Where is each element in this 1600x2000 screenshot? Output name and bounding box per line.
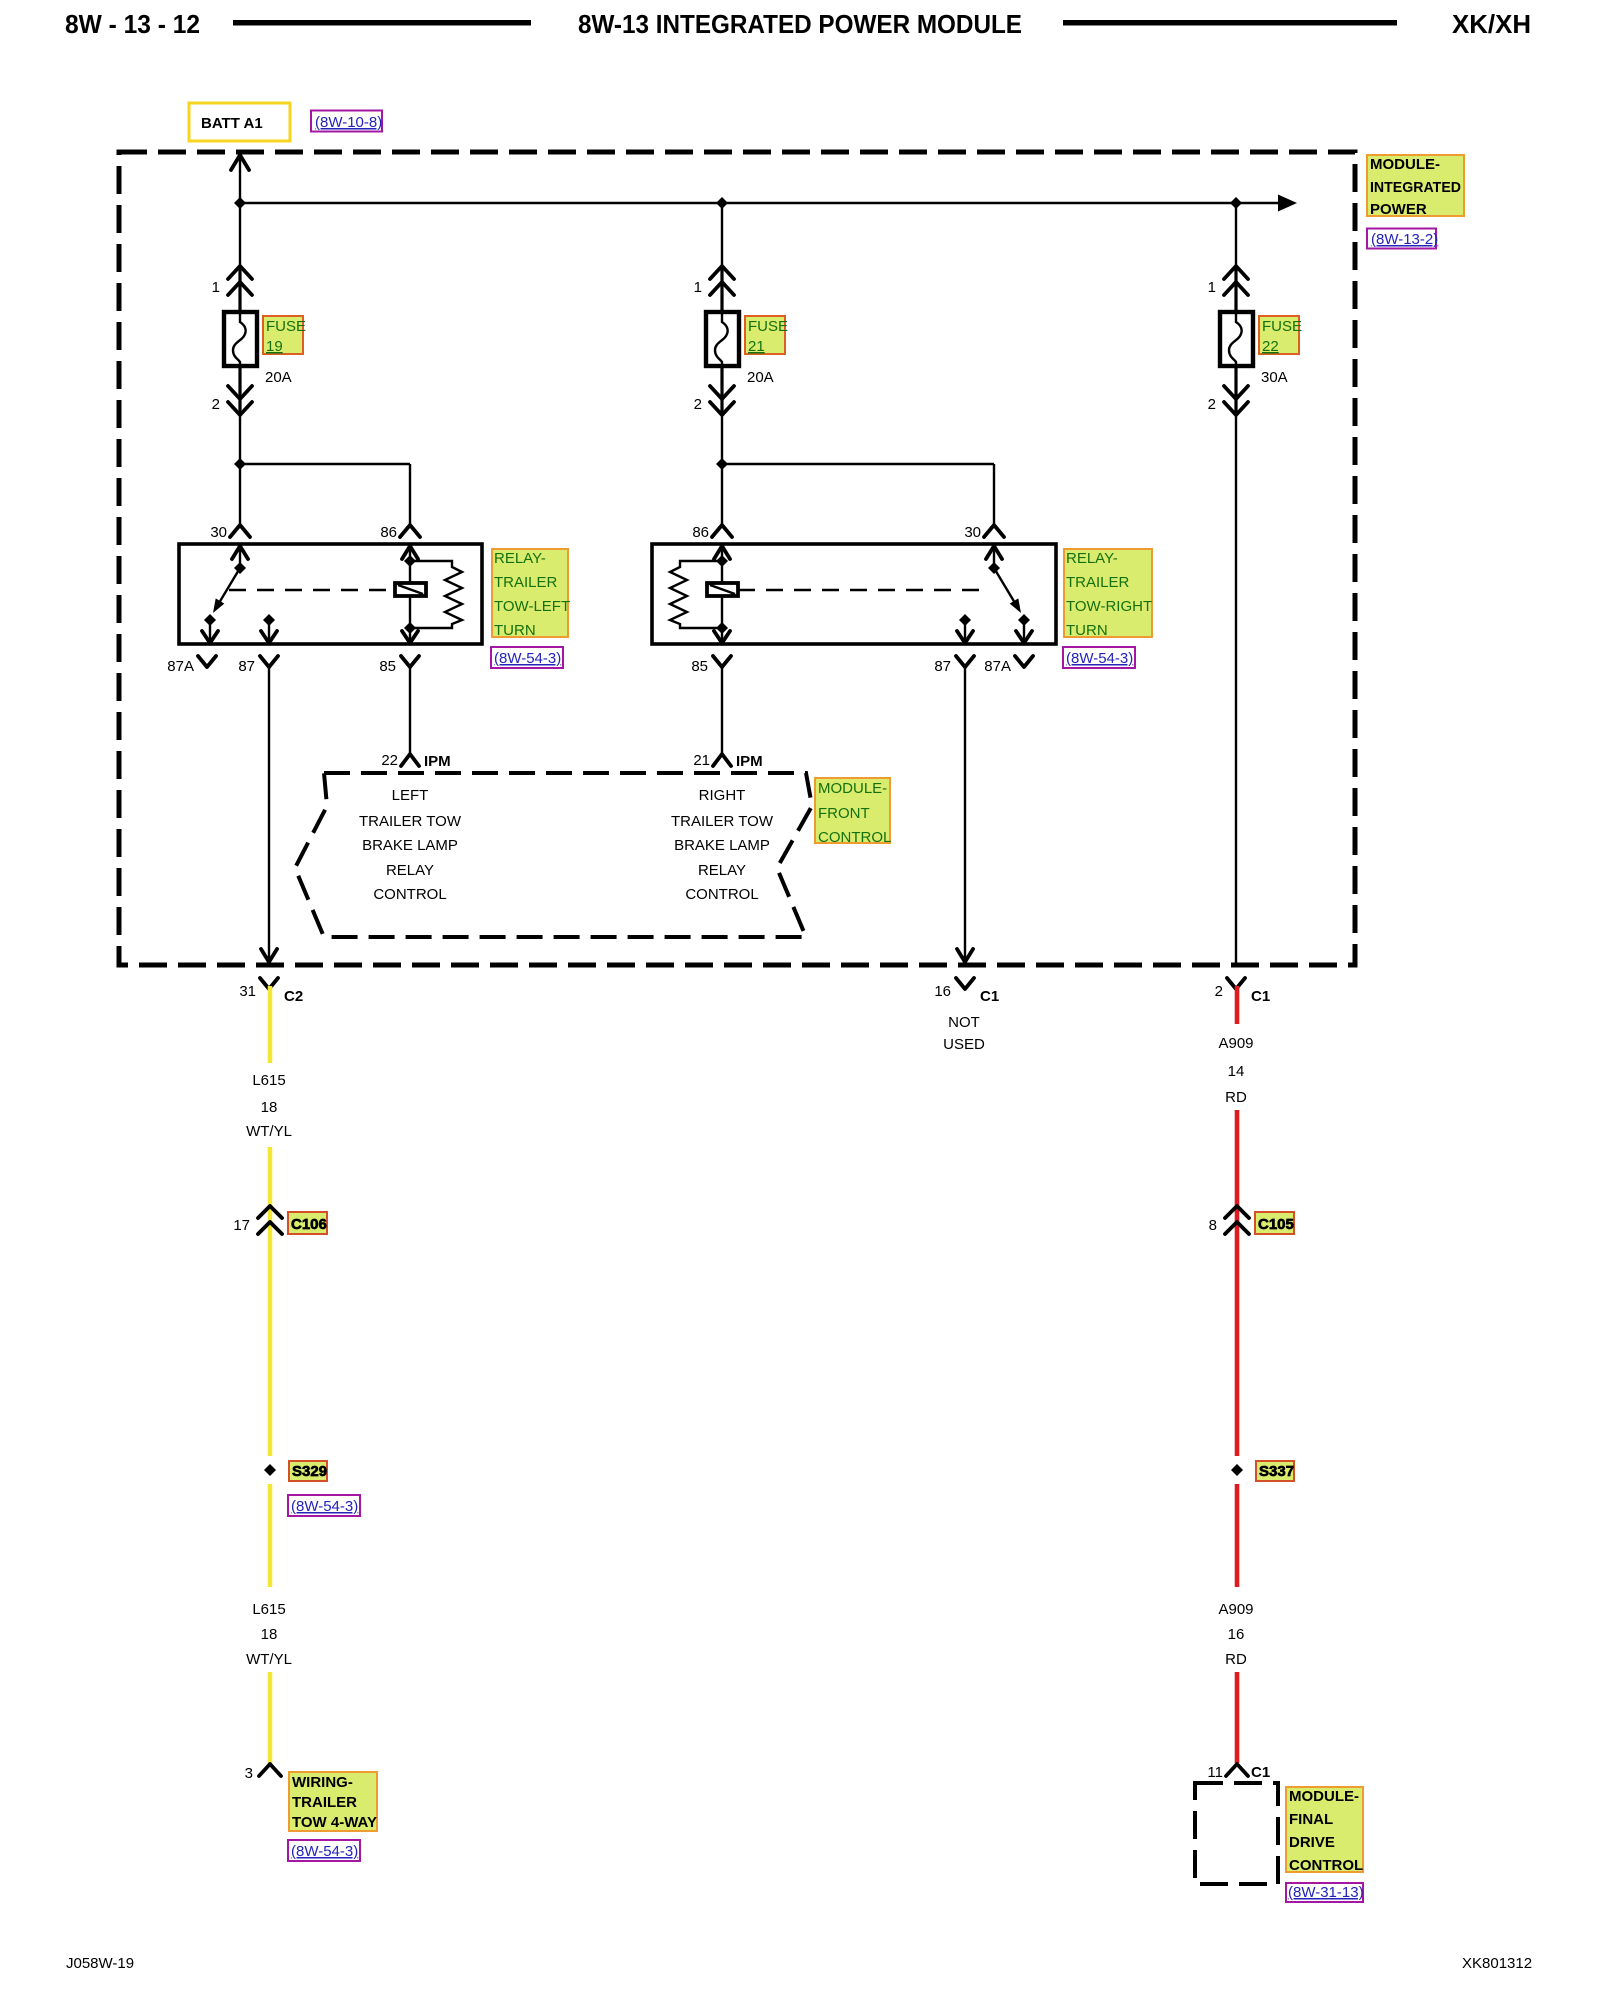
wire: relay-left coil to 85 — [409, 596, 411, 641]
svg-text:RELAY: RELAY — [386, 862, 434, 879]
module final drive control dashed outline — [1195, 1783, 1278, 1884]
circuit label L615 18 WT/YL — [246, 1072, 292, 1140]
node: relay-right coil bottom — [716, 622, 728, 634]
svg-text:C106: C106 — [291, 1216, 327, 1233]
splice label S337 — [1256, 1461, 1294, 1481]
label RELAY-TRAILER TOW-LEFT TURN — [492, 549, 568, 637]
wire: drop to relay-right pin 30 — [993, 464, 995, 525]
hyperlink (8W-13-2) — [1367, 229, 1436, 249]
wire: fuse 19 pin2 down — [239, 415, 241, 464]
svg-text:FINAL: FINAL — [1289, 1811, 1333, 1828]
module integrated power dashed outline — [119, 152, 1355, 965]
label MODULE-FRONT CONTROL — [815, 778, 890, 843]
svg-text:TOW-RIGHT: TOW-RIGHT — [1066, 598, 1152, 615]
svg-text:A909: A909 — [1218, 1035, 1253, 1052]
terminal chevron pin 30 relay-left — [230, 525, 250, 537]
battery feed box BATT A1 — [189, 103, 290, 141]
label MODULE-INTEGRATED POWER — [1367, 155, 1464, 216]
wire L615 segment 2 — [268, 1147, 273, 1456]
svg-text:18: 18 — [261, 1099, 278, 1116]
svg-text:22: 22 — [381, 752, 398, 769]
svg-text:3: 3 — [245, 1765, 253, 1782]
relay-left coil — [395, 583, 426, 596]
relay-left pin30 entry arrow — [232, 546, 248, 559]
node: relay-right switch common — [988, 562, 1000, 574]
svg-text:LEFT: LEFT — [392, 787, 429, 804]
svg-text:TURN: TURN — [494, 622, 536, 639]
wire: relay-left 87A stub — [209, 620, 211, 641]
wire: relay-left 85 to IPM pin 22 — [409, 667, 411, 753]
header rule left — [233, 20, 531, 26]
svg-text:DRIVE: DRIVE — [1289, 1834, 1335, 1851]
wire: relay-left 87 down to C2 — [268, 667, 270, 962]
wire L615 18 WT/YL segment 1 — [268, 986, 273, 1063]
wire: fuse 21 pin2 down — [721, 415, 723, 464]
svg-text:L615: L615 — [252, 1601, 285, 1618]
svg-text:2: 2 — [694, 396, 702, 413]
svg-text:17: 17 — [233, 1217, 250, 1234]
terminal chevron C1 pin 2 — [1227, 978, 1245, 989]
svg-text:FUSE: FUSE — [1262, 318, 1302, 335]
connector label C106 — [288, 1212, 327, 1234]
wire A909 segment 2 — [1235, 1110, 1240, 1456]
fuse 19 symbol — [224, 312, 257, 366]
svg-text:L615: L615 — [252, 1072, 285, 1089]
svg-text:21: 21 — [748, 338, 765, 355]
hyperlink (8W-54-3) relay-right — [1063, 647, 1135, 668]
wire: fuse 22 pin 2 — [1234, 366, 1237, 415]
node: branch to relay left pins 30/86 — [234, 458, 246, 470]
svg-text:WT/YL: WT/YL — [246, 1123, 292, 1140]
svg-text:2: 2 — [212, 396, 220, 413]
label MODULE-FINAL DRIVE CONTROL — [1286, 1787, 1363, 1872]
svg-text:TRAILER TOW: TRAILER TOW — [359, 813, 462, 830]
svg-text:19: 19 — [266, 338, 283, 355]
svg-text:20A: 20A — [265, 369, 292, 386]
svg-text:21: 21 — [693, 752, 710, 769]
terminal chevron final drive module pin 11 — [1226, 1764, 1248, 1776]
svg-text:(8W-31-13): (8W-31-13) — [1288, 1884, 1364, 1901]
resistor across relay-left coil — [410, 561, 462, 628]
wire: branch across to relay-left pin 86 — [240, 463, 410, 465]
relay-right switch arm — [994, 568, 1018, 608]
wire L615 segment 3 — [268, 1484, 273, 1587]
terminal chevron pin 86 relay-left — [400, 525, 420, 537]
wire L615 segment 4 — [268, 1672, 273, 1763]
svg-text:(8W-54-3): (8W-54-3) — [291, 1498, 358, 1515]
wire: fuse 21 pin 2 — [720, 366, 723, 415]
relay-left actuator dashed link — [229, 589, 395, 591]
terminal chevron IPM pin 21 — [713, 754, 731, 766]
svg-text:MODULE-: MODULE- — [1370, 156, 1440, 173]
svg-text:TOW 4-WAY: TOW 4-WAY — [292, 1814, 377, 1831]
resistor across relay-right coil — [670, 561, 722, 628]
terminal chevron pin 86 relay-right — [712, 525, 732, 537]
label WIRING-TRAILER TOW 4-WAY — [289, 1772, 377, 1831]
wire: branch down to relay-right pin 86 — [721, 464, 723, 525]
svg-text:TRAILER: TRAILER — [292, 1794, 357, 1811]
svg-text:NOT: NOT — [948, 1014, 980, 1031]
terminal chevron IPM pin 22 — [401, 754, 419, 766]
in-line connector C105 double chevron — [1225, 1206, 1249, 1218]
relay-left switch arm — [216, 568, 240, 608]
wire: BATT A1 down into module — [239, 156, 241, 266]
arrow up to BATT A1 at module border — [231, 155, 249, 170]
svg-text:TRAILER: TRAILER — [1066, 574, 1130, 591]
node: relay-right 87A contact — [1018, 614, 1030, 626]
header rule right — [1063, 20, 1397, 26]
svg-text:8W-13 INTEGRATED POWER MODULE: 8W-13 INTEGRATED POWER MODULE — [578, 9, 1022, 39]
in-line connector double chevron, fuse 19 pin 2 — [228, 386, 252, 399]
svg-text:8: 8 — [1209, 1217, 1217, 1234]
svg-text:WIRING-: WIRING- — [292, 1774, 353, 1791]
wire: feed into fuse 19 pin 1 (x=240) — [238, 266, 241, 312]
svg-text:FRONT: FRONT — [818, 805, 870, 822]
terminal chevron 85 relay-left — [401, 656, 419, 667]
node: relay-left coil bottom — [404, 622, 416, 634]
svg-text:S337: S337 — [1259, 1463, 1294, 1480]
svg-text:RELAY-: RELAY- — [1066, 550, 1118, 567]
svg-text:CONTROL: CONTROL — [818, 829, 891, 846]
svg-text:(8W-54-3): (8W-54-3) — [494, 650, 561, 667]
svg-text:85: 85 — [379, 658, 396, 675]
svg-text:FUSE: FUSE — [266, 318, 306, 335]
net: left trailer tow brake lamp relay control — [359, 787, 462, 903]
svg-text:1: 1 — [212, 279, 220, 296]
hyperlink (8W-31-13) — [1286, 1883, 1363, 1902]
svg-text:87A: 87A — [984, 658, 1011, 675]
terminal chevron 85 relay-right — [713, 656, 731, 667]
net: right trailer tow brake lamp relay control — [671, 787, 774, 903]
terminal chevron 87A relay-left — [198, 656, 216, 667]
label FUSE 21 — [745, 316, 785, 354]
svg-text:USED: USED — [943, 1036, 985, 1053]
wire: drop to relay-left pin 86 — [409, 464, 411, 525]
svg-text:IPM: IPM — [424, 753, 451, 770]
svg-text:86: 86 — [692, 524, 709, 541]
svg-text:RIGHT: RIGHT — [699, 787, 746, 804]
relay-right pin30 entry arrow — [986, 546, 1002, 559]
relay trailer tow left turn: case — [179, 544, 482, 644]
svg-text:RELAY-: RELAY- — [494, 550, 546, 567]
svg-text:MODULE-: MODULE- — [1289, 1788, 1359, 1805]
svg-text:XK801312: XK801312 — [1462, 1955, 1532, 1972]
wire: feed into fuse 21 pin 1 (x=722) — [720, 266, 723, 312]
svg-text:TRAILER: TRAILER — [494, 574, 558, 591]
splice S329 — [264, 1464, 276, 1476]
svg-text:31: 31 — [239, 983, 256, 1000]
wire: branch across to relay-right pin 30 — [722, 463, 994, 465]
svg-text:87: 87 — [934, 658, 951, 675]
in-line connector double chevron, fuse 21 pin 2 — [710, 386, 734, 399]
hyperlink (8W-54-3) at trailer tow wiring — [288, 1840, 360, 1861]
node: relay-right coil top — [716, 555, 728, 567]
svg-text:FUSE: FUSE — [748, 318, 788, 335]
circuit label A909 16 RD — [1218, 1601, 1253, 1668]
wire: relay-right 87 down to C1 — [964, 667, 966, 962]
terminal chevron 87 relay-left — [260, 656, 278, 667]
in-line connector double chevron, fuse 22 pin 1 — [1224, 266, 1248, 279]
svg-text:TRAILER TOW: TRAILER TOW — [671, 813, 774, 830]
relay trailer tow right turn: case — [652, 544, 1056, 644]
svg-text:POWER: POWER — [1370, 201, 1427, 218]
svg-text:J058W-19: J058W-19 — [66, 1955, 134, 1972]
svg-text:30: 30 — [964, 524, 981, 541]
svg-text:RD: RD — [1225, 1089, 1247, 1106]
hyperlink (8W-54-3) relay-left — [491, 647, 563, 668]
svg-text:MODULE-: MODULE- — [818, 780, 887, 797]
node: rail junction to fuse 21 — [716, 197, 728, 209]
svg-text:(8W-10-8): (8W-10-8) — [315, 114, 382, 131]
svg-text:RELAY: RELAY — [698, 862, 746, 879]
splice S337 — [1231, 1464, 1243, 1476]
node: power rail junction at BATT feed — [234, 197, 246, 209]
svg-text:S329: S329 — [292, 1463, 327, 1480]
wire A909 segment 3 — [1235, 1484, 1240, 1587]
svg-text:XK/XH: XK/XH — [1452, 9, 1531, 39]
terminal chevron 87A relay-right — [1015, 656, 1033, 667]
in-line connector C106 double chevron — [258, 1206, 282, 1218]
relay-left pin86 entry arrow — [402, 546, 418, 559]
wire: branch down to relay-left pin 30 — [239, 464, 241, 525]
svg-text:INTEGRATED: INTEGRATED — [1370, 179, 1461, 196]
svg-text:C2: C2 — [284, 988, 303, 1005]
node: relay-left 87 contact — [263, 614, 275, 626]
wire: power distribution rail — [240, 202, 1283, 204]
relay-right coil — [707, 583, 738, 596]
wire: rail drop to fuse 22 — [1235, 203, 1237, 266]
node: rail junction to fuse 22 — [1230, 197, 1242, 209]
terminal chevron C2 pin 31 — [260, 978, 278, 989]
wire: rail drop to fuse 21 — [721, 203, 723, 266]
svg-text:1: 1 — [1208, 279, 1216, 296]
svg-text:TOW-LEFT: TOW-LEFT — [494, 598, 570, 615]
arrow at module border, pin 31 — [261, 949, 277, 962]
label FUSE 19 — [263, 316, 303, 354]
wire: relay-right coil to 85 — [721, 596, 723, 641]
svg-text:18: 18 — [261, 1626, 278, 1643]
terminal chevron trailer tow connector pin 3 — [259, 1764, 281, 1776]
label FUSE 22 — [1259, 316, 1299, 354]
svg-text:WT/YL: WT/YL — [246, 1651, 292, 1668]
svg-text:87: 87 — [238, 658, 255, 675]
svg-text:20A: 20A — [747, 369, 774, 386]
splice label S329 — [289, 1461, 327, 1481]
wire A909 segment 4 — [1235, 1672, 1240, 1763]
svg-text:16: 16 — [1228, 1626, 1245, 1643]
circuit label L615 18 WT/YL lower — [246, 1601, 292, 1668]
in-line connector double chevron, fuse 21 pin 1 — [710, 266, 734, 279]
wire: fuse 22 pin2 down to C1 exit — [1235, 415, 1237, 966]
svg-text:1: 1 — [694, 279, 702, 296]
wire: relay-left 87 stub — [268, 620, 270, 641]
terminal chevron pin 30 relay-right — [984, 525, 1004, 537]
node: relay-left coil top — [404, 555, 416, 567]
svg-text:2: 2 — [1215, 983, 1223, 1000]
hyperlink (8W-54-3) at S329 — [288, 1495, 360, 1516]
wire: relay-right 87 stub — [964, 620, 966, 641]
svg-text:BRAKE LAMP: BRAKE LAMP — [674, 837, 770, 854]
svg-text:C1: C1 — [1251, 1764, 1270, 1781]
svg-text:14: 14 — [1228, 1063, 1245, 1080]
svg-text:85: 85 — [691, 658, 708, 675]
svg-text:CONTROL: CONTROL — [685, 886, 758, 903]
svg-text:C1: C1 — [980, 988, 999, 1005]
node: branch to relay right pins 86/30 — [716, 458, 728, 470]
svg-text:22: 22 — [1262, 338, 1279, 355]
svg-text:11: 11 — [1207, 1764, 1223, 1781]
svg-text:C105: C105 — [1258, 1216, 1294, 1233]
svg-text:A909: A909 — [1218, 1601, 1253, 1618]
svg-text:BATT A1: BATT A1 — [201, 115, 263, 132]
node: relay-left switch common — [234, 562, 246, 574]
terminal chevron 87 relay-right — [956, 656, 974, 667]
hyperlink (8W-10-8) — [311, 111, 382, 132]
svg-text:BRAKE LAMP: BRAKE LAMP — [362, 837, 458, 854]
circuit label A909 14 RD — [1218, 1035, 1253, 1106]
label RELAY-TRAILER TOW-RIGHT TURN — [1064, 549, 1152, 637]
in-line connector double chevron, fuse 22 pin 2 — [1224, 386, 1248, 399]
svg-text:2: 2 — [1208, 396, 1216, 413]
svg-text:16: 16 — [934, 983, 951, 1000]
relay-right pin86 entry arrow — [714, 546, 730, 559]
arrow at right end of power rail — [1278, 195, 1297, 212]
svg-text:8W - 13 - 12: 8W - 13 - 12 — [65, 9, 200, 39]
wire A909 14 RD segment 1 — [1235, 986, 1240, 1024]
wire: relay-right 87A stub — [1023, 620, 1025, 641]
svg-text:(8W-54-3): (8W-54-3) — [1066, 650, 1133, 667]
node: relay-left 87A contact — [204, 614, 216, 626]
in-line connector double chevron, fuse 19 pin 1 — [228, 266, 252, 279]
svg-text:RD: RD — [1225, 1651, 1247, 1668]
connector label C105 — [1255, 1212, 1294, 1234]
svg-text:TURN: TURN — [1066, 622, 1108, 639]
svg-text:87A: 87A — [167, 658, 194, 675]
svg-text:30A: 30A — [1261, 369, 1288, 386]
svg-text:CONTROL: CONTROL — [373, 886, 446, 903]
terminal chevron C1 pin 16 — [956, 978, 974, 989]
wire: relay-right 85 to IPM pin 21 — [721, 667, 723, 753]
wire: fuse 19 pin 2 — [238, 366, 241, 415]
svg-text:30: 30 — [210, 524, 227, 541]
node: relay-right 87 contact — [959, 614, 971, 626]
arrow at module border, pin 16 — [957, 949, 973, 962]
svg-text:86: 86 — [380, 524, 397, 541]
svg-text:(8W-54-3): (8W-54-3) — [291, 1843, 358, 1860]
fuse 21 symbol — [706, 312, 739, 366]
svg-text:IPM: IPM — [736, 753, 763, 770]
wire: feed into fuse 22 pin 1 (x=1236) — [1234, 266, 1237, 312]
svg-text:CONTROL: CONTROL — [1289, 1857, 1363, 1874]
svg-text:C1: C1 — [1251, 988, 1270, 1005]
module front control dashed outline — [295, 773, 812, 937]
fuse 22 symbol — [1220, 312, 1253, 366]
svg-text:(8W-13-2): (8W-13-2) — [1371, 231, 1438, 248]
relay-right actuator dashed link — [738, 589, 985, 591]
